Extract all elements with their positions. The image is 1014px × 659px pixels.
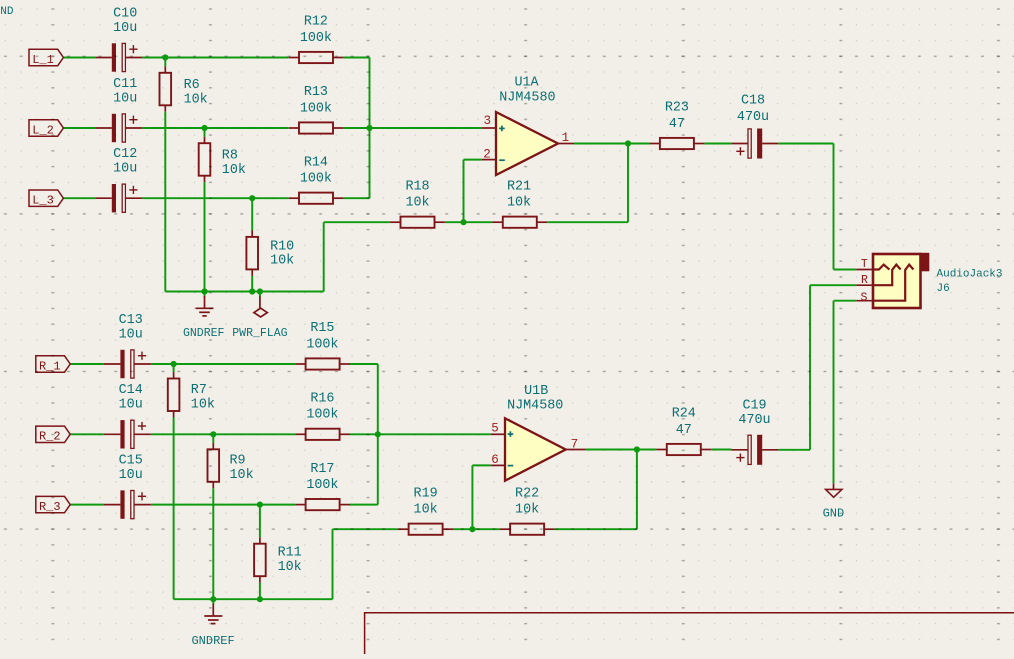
svg-text:NJM4580: NJM4580	[507, 398, 563, 413]
svg-text:10k: 10k	[270, 254, 294, 269]
svg-text:R6: R6	[184, 78, 200, 93]
svg-text:C18: C18	[741, 93, 765, 108]
svg-text:3: 3	[484, 114, 492, 128]
svg-text:R7: R7	[191, 383, 207, 398]
svg-text:R12: R12	[304, 15, 328, 30]
svg-text:L_1: L_1	[32, 53, 54, 67]
svg-text:7: 7	[571, 437, 579, 451]
svg-text:R16: R16	[310, 392, 334, 407]
svg-text:C10: C10	[113, 6, 137, 21]
svg-text:100k: 100k	[306, 478, 338, 493]
svg-text:6: 6	[491, 453, 499, 467]
svg-text:L_2: L_2	[32, 123, 54, 137]
svg-text:10k: 10k	[184, 93, 208, 108]
svg-text:1: 1	[562, 131, 570, 145]
svg-text:R_2: R_2	[39, 430, 61, 444]
svg-text:R17: R17	[310, 462, 334, 477]
svg-text:10k: 10k	[222, 163, 246, 178]
svg-text:T: T	[861, 258, 868, 271]
svg-text:R14: R14	[304, 155, 328, 170]
svg-text:GNDREF: GNDREF	[183, 327, 225, 340]
svg-text:10u: 10u	[113, 91, 137, 106]
svg-text:J6: J6	[937, 283, 950, 295]
svg-text:10u: 10u	[119, 398, 143, 413]
svg-text:U1B: U1B	[524, 384, 548, 399]
svg-text:ND: ND	[0, 6, 14, 18]
svg-text:NJM4580: NJM4580	[499, 90, 555, 105]
svg-text:R21: R21	[507, 179, 531, 194]
svg-text:R_1: R_1	[39, 359, 61, 373]
svg-text:R19: R19	[414, 486, 438, 501]
svg-text:C19: C19	[742, 398, 766, 413]
svg-text:R24: R24	[672, 407, 696, 422]
svg-text:R8: R8	[222, 149, 238, 164]
svg-text:C11: C11	[113, 77, 137, 92]
svg-text:10k: 10k	[405, 196, 429, 211]
svg-text:C15: C15	[119, 453, 143, 468]
svg-text:100k: 100k	[300, 31, 332, 46]
svg-text:10u: 10u	[119, 468, 143, 483]
svg-text:R11: R11	[278, 545, 302, 560]
svg-text:2: 2	[483, 147, 491, 161]
svg-text:C13: C13	[119, 313, 143, 328]
svg-text:R: R	[861, 274, 868, 287]
svg-text:GND: GND	[823, 506, 845, 520]
svg-text:R15: R15	[310, 321, 334, 336]
svg-text:10k: 10k	[414, 503, 438, 518]
svg-text:47: 47	[676, 423, 692, 438]
svg-text:10u: 10u	[119, 327, 143, 342]
svg-text:C12: C12	[113, 147, 137, 162]
svg-text:100k: 100k	[306, 337, 338, 352]
svg-text:R18: R18	[405, 179, 429, 194]
svg-text:AudioJack3: AudioJack3	[937, 268, 1003, 280]
svg-text:100k: 100k	[306, 408, 338, 423]
svg-text:U1A: U1A	[514, 75, 539, 90]
svg-text:100k: 100k	[300, 172, 332, 187]
svg-text:10k: 10k	[515, 503, 539, 518]
svg-text:5: 5	[491, 422, 499, 436]
svg-text:470u: 470u	[737, 110, 769, 125]
svg-text:R23: R23	[665, 101, 689, 116]
svg-text:10k: 10k	[507, 196, 531, 211]
svg-text:100k: 100k	[300, 101, 332, 116]
svg-text:10u: 10u	[113, 21, 137, 36]
svg-text:10u: 10u	[113, 162, 137, 177]
svg-text:47: 47	[669, 117, 685, 132]
svg-text:S: S	[860, 291, 867, 304]
svg-text:L_3: L_3	[32, 194, 54, 208]
svg-text:PWR_FLAG: PWR_FLAG	[232, 327, 287, 340]
svg-text:10k: 10k	[230, 468, 254, 483]
svg-text:470u: 470u	[738, 413, 770, 428]
svg-text:GNDREF: GNDREF	[191, 634, 234, 648]
svg-text:10k: 10k	[278, 560, 302, 575]
svg-text:10k: 10k	[191, 398, 215, 413]
svg-text:R9: R9	[230, 453, 246, 468]
svg-text:R_3: R_3	[39, 500, 61, 514]
svg-text:R10: R10	[270, 240, 294, 255]
svg-text:R22: R22	[515, 486, 539, 501]
svg-text:C14: C14	[119, 383, 143, 398]
svg-text:R13: R13	[304, 85, 328, 100]
